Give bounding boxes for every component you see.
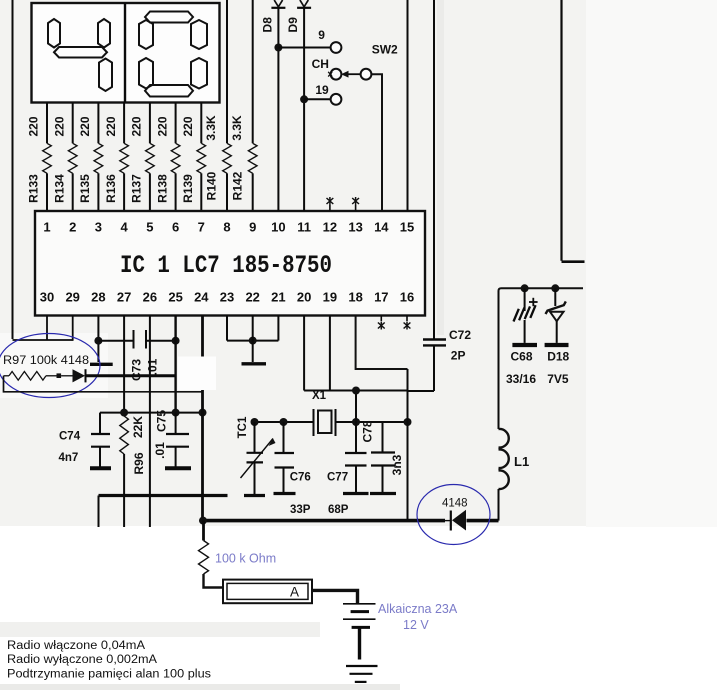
contact circle 9 xyxy=(331,42,342,53)
diode 4148 (bottom) xyxy=(451,510,466,531)
wire crystal node line xyxy=(255,421,408,423)
junction C77 top xyxy=(352,387,360,395)
wire display to R133 xyxy=(46,103,48,144)
junction C68 xyxy=(521,284,529,292)
switch SW2 contact circle xyxy=(361,69,372,80)
svg-text:R96: R96 xyxy=(132,452,146,474)
zener diode D18 xyxy=(545,288,569,345)
resistor R135 xyxy=(94,143,103,211)
svg-text:220: 220 xyxy=(104,116,118,136)
svg-text:R134: R134 xyxy=(52,174,66,203)
svg-text:220: 220 xyxy=(130,116,144,136)
svg-text:100 k Ohm: 100 k Ohm xyxy=(215,552,276,566)
7-segment display box xyxy=(32,3,220,103)
wire SW2 to IC pin 14 xyxy=(371,74,382,211)
display digit 0 xyxy=(139,12,207,97)
wire left rail to pins 30 29 xyxy=(13,316,73,341)
svg-text:C68: C68 xyxy=(511,350,533,364)
wire display to R142 xyxy=(252,0,254,143)
svg-text:R138: R138 xyxy=(155,174,169,203)
svg-text:2P: 2P xyxy=(451,349,466,363)
resistor R133 xyxy=(43,143,52,211)
wire C72 to node xyxy=(408,390,435,392)
resistor R136 xyxy=(120,143,129,211)
wire IC pin 22 down xyxy=(252,316,254,363)
diode D8 xyxy=(271,0,285,8)
wire IC pin 23 down xyxy=(226,316,228,341)
capacitor C68 electrolytic xyxy=(512,288,537,345)
wire R97 left return xyxy=(4,376,203,392)
resistor 100k Ohm xyxy=(199,521,224,588)
wire display to R137 xyxy=(149,103,151,144)
no-connect marks pins 17 16 xyxy=(378,316,411,330)
wire IC pin 18 route xyxy=(356,316,408,370)
contact circle CH xyxy=(328,69,341,80)
svg-text:D18: D18 xyxy=(547,350,569,364)
junction R96 top xyxy=(120,409,128,417)
junction C75 top xyxy=(172,409,180,417)
svg-text:9: 9 xyxy=(318,28,325,42)
svg-text:302928272625242322212019181716: 302928272625242322212019181716 xyxy=(40,290,414,305)
junction pin 22 xyxy=(249,337,257,345)
pin 28 stub plate xyxy=(90,363,113,366)
wire display to R140 xyxy=(226,0,228,143)
capacitor C74 xyxy=(90,413,111,469)
resistor R138 xyxy=(171,143,180,211)
wire left rail from top xyxy=(12,0,14,339)
svg-text:R139: R139 xyxy=(181,174,195,203)
diode D9 xyxy=(297,0,311,8)
svg-text:C74: C74 xyxy=(59,431,81,443)
wire pin 25 column xyxy=(174,316,176,414)
wire bottom rail xyxy=(203,519,499,523)
crystal X1 xyxy=(314,409,336,436)
svg-text:220: 220 xyxy=(78,116,92,136)
wire right node column xyxy=(407,369,409,521)
junction on D8 wire xyxy=(274,44,282,52)
svg-text:Podtrzymanie pamięci alan 100: Podtrzymanie pamięci alan 100 plus xyxy=(7,669,211,681)
junction D18 xyxy=(551,284,559,292)
wire IC pin 26 down xyxy=(149,316,151,496)
svg-text:220: 220 xyxy=(52,116,66,136)
svg-text:.01: .01 xyxy=(153,442,167,459)
wire pins 20-19 to C77 node xyxy=(304,390,407,392)
wire display to R139 xyxy=(200,103,202,144)
wire display to R135 xyxy=(97,103,99,144)
frame line top right xyxy=(562,0,585,262)
highlight ellipse R97 xyxy=(0,334,100,398)
svg-text:Radio wyłączone 0,002mA: Radio wyłączone 0,002mA xyxy=(7,654,157,666)
inductor L1 xyxy=(499,291,509,521)
wire IC pin 15 up xyxy=(407,0,409,211)
C68 plus sign xyxy=(529,298,538,306)
thick wire diode to pin 25 column xyxy=(87,374,177,377)
svg-text:D9: D9 xyxy=(286,17,300,33)
svg-text:C72: C72 xyxy=(449,328,471,342)
wire IC pin 24 thick column xyxy=(201,316,204,521)
resistor R137 xyxy=(146,143,155,211)
resistor R134 xyxy=(68,143,77,211)
svg-text:SW2: SW2 xyxy=(372,43,398,57)
wire to contact 19 xyxy=(304,98,331,100)
junction right node xyxy=(404,418,412,426)
svg-text:D8: D8 xyxy=(260,17,274,33)
svg-text:33P: 33P xyxy=(290,504,311,516)
trimmer capacitor TC1 xyxy=(241,422,276,496)
svg-text:R142: R142 xyxy=(230,171,244,200)
capacitor C76 xyxy=(274,422,296,494)
wire IC pin 28 down xyxy=(97,316,99,363)
wire IC pin 21 down xyxy=(277,316,279,341)
svg-text:IC 1 LC7 185-8750: IC 1 LC7 185-8750 xyxy=(120,251,332,280)
battery BT1 xyxy=(343,604,376,660)
resistor R139 xyxy=(197,143,206,211)
capacitor C78 xyxy=(370,422,396,494)
junction pin 25 top xyxy=(172,337,180,345)
svg-text:7V5: 7V5 xyxy=(547,372,569,386)
wire to contact 9 xyxy=(278,47,330,49)
svg-text:R135: R135 xyxy=(78,174,92,203)
svg-text:12 V: 12 V xyxy=(403,618,429,632)
resistor R97 xyxy=(4,372,57,381)
op IC IC1 LC7185-8750 box xyxy=(35,211,425,316)
svg-text:3n3: 3n3 xyxy=(390,454,404,475)
svg-text:3.3K: 3.3K xyxy=(204,115,218,141)
wire D8 to IC pin 10 xyxy=(277,8,279,211)
wire pins 23-21 xyxy=(227,340,278,342)
svg-text:C73: C73 xyxy=(129,359,143,381)
capacitor C77 xyxy=(343,453,369,494)
svg-text:220: 220 xyxy=(181,116,195,136)
svg-text:Alkaiczna 23A: Alkaiczna 23A xyxy=(378,602,458,616)
svg-text:C77: C77 xyxy=(327,472,348,484)
svg-text:.01: .01 xyxy=(146,358,160,375)
wire IC pin 27 down xyxy=(123,316,125,413)
diode 4148 (R97 branch) xyxy=(61,369,85,382)
junction C77 mid xyxy=(352,418,360,426)
highlight ellipse 4148 xyxy=(417,485,490,545)
wire display to R136 xyxy=(123,103,125,144)
svg-text:C78: C78 xyxy=(361,420,375,442)
wire display to R138 xyxy=(175,103,177,144)
capacitor C73 xyxy=(98,330,175,349)
ground rail mid xyxy=(99,496,228,528)
capacitor C72 xyxy=(423,340,446,392)
contact circle 19 xyxy=(331,94,342,105)
svg-text:220: 220 xyxy=(155,116,169,136)
wire IC pin 20 down xyxy=(303,316,305,391)
wire C77 column xyxy=(355,391,357,454)
svg-text:Radio włączone 0,04mA: Radio włączone 0,04mA xyxy=(7,640,145,652)
display digit 4 xyxy=(48,19,112,91)
junction pin 28 xyxy=(94,337,102,345)
wire display to R134 xyxy=(72,103,74,144)
wire meter to battery xyxy=(312,590,358,603)
svg-text:R136: R136 xyxy=(104,174,118,203)
svg-text:C75: C75 xyxy=(155,410,169,432)
wire mid node line xyxy=(100,412,203,414)
resistor R140 xyxy=(223,143,232,211)
no-connect marks pins 12 13 xyxy=(327,197,360,211)
switch SW2 arrow xyxy=(341,71,361,78)
svg-text:22K: 22K xyxy=(131,416,145,438)
svg-text:R97 100k 4148: R97 100k 4148 xyxy=(3,355,89,367)
svg-text:220: 220 xyxy=(27,116,41,136)
svg-text:C76: C76 xyxy=(290,472,311,484)
junction C76 xyxy=(280,418,288,426)
junction pin 24 line xyxy=(199,409,207,417)
svg-text:X1: X1 xyxy=(312,390,327,402)
svg-text:123456789101112131415: 123456789101112131415 xyxy=(43,220,414,235)
svg-text:TC1: TC1 xyxy=(237,416,249,438)
resistor R96 xyxy=(120,416,129,496)
capacitor C75 xyxy=(165,413,191,469)
svg-text:4n7: 4n7 xyxy=(59,452,79,464)
svg-text:4148: 4148 xyxy=(442,498,468,510)
wire top to C72 xyxy=(433,0,435,339)
ground bar pin 22 xyxy=(242,362,267,365)
junction TC1 xyxy=(251,418,259,426)
svg-text:33/16: 33/16 xyxy=(506,372,536,386)
svg-text:19: 19 xyxy=(315,83,329,97)
svg-text:CH: CH xyxy=(312,57,329,71)
resistor R142 xyxy=(248,143,257,211)
wire D9 to IC pin 11 xyxy=(303,8,305,211)
svg-text:3.3K: 3.3K xyxy=(230,115,244,141)
junction square on R97 wire xyxy=(57,373,62,378)
svg-text:68P: 68P xyxy=(328,504,349,516)
ground battery xyxy=(346,666,378,682)
svg-text:A: A xyxy=(290,585,299,600)
ammeter A xyxy=(223,580,312,604)
wire top node C68 D18 xyxy=(499,288,584,291)
wire IC pin 19 down xyxy=(329,316,331,391)
svg-text:L1: L1 xyxy=(514,454,529,469)
junction on D9 wire xyxy=(300,95,308,103)
svg-text:R137: R137 xyxy=(130,174,144,203)
junction bottom rail pin24 xyxy=(199,517,207,525)
svg-text:R140: R140 xyxy=(205,171,219,200)
svg-text:R133: R133 xyxy=(27,174,41,203)
